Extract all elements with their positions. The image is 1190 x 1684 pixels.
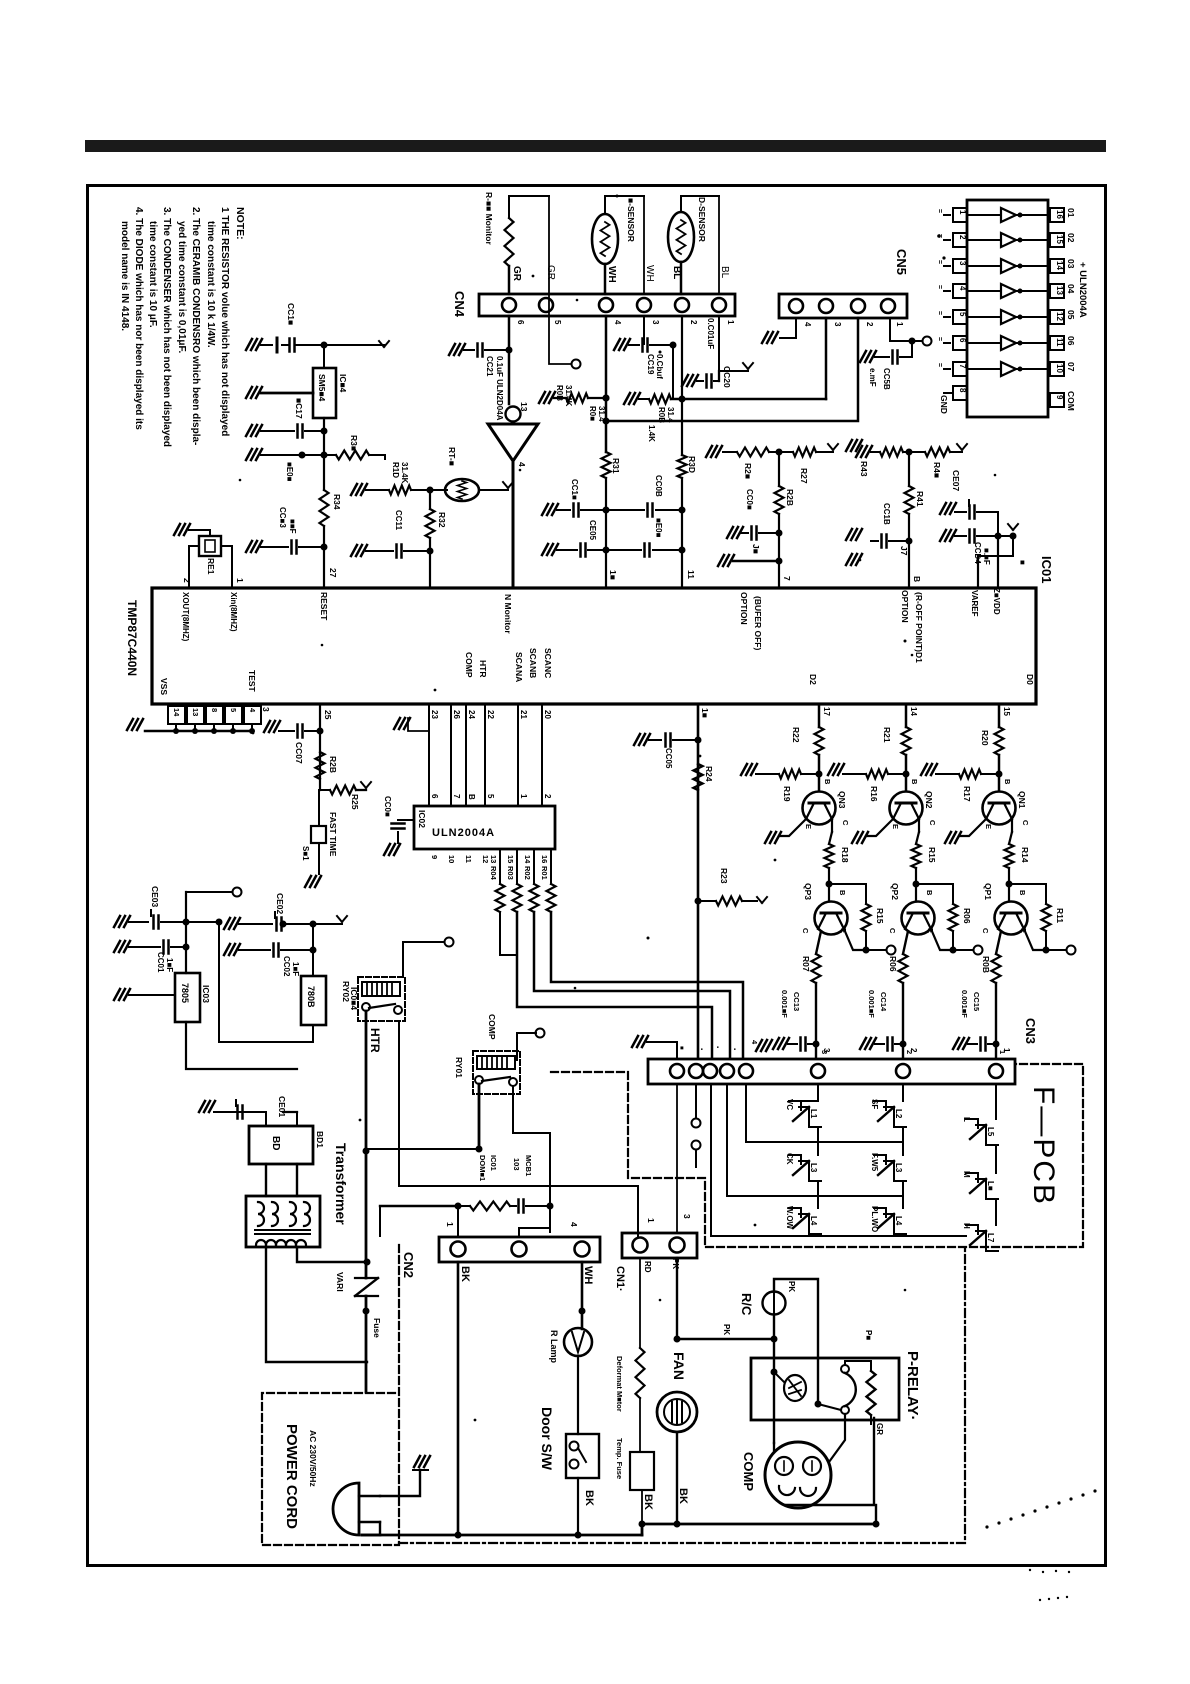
inverter bubble bbox=[506, 407, 521, 422]
compressor COMP bbox=[765, 1442, 831, 1508]
capacitor CC01 bbox=[129, 946, 160, 948]
resistor R42 bbox=[925, 448, 950, 457]
CN4 pin circle 3 bbox=[637, 298, 651, 312]
wire IC01 pin 21 to ULN bbox=[517, 704, 519, 806]
wire IC01 pin 20 to ULN bbox=[541, 704, 543, 806]
junction J6 bbox=[776, 530, 783, 537]
svg-text:E: E bbox=[804, 824, 813, 829]
svg-text:11: 11 bbox=[686, 570, 696, 579]
resistor R21 bbox=[902, 727, 911, 755]
snubber resistor bbox=[470, 1202, 510, 1211]
svg-text:E: E bbox=[984, 824, 993, 829]
ground plug bbox=[414, 1456, 430, 1467]
svg-text:CC1B: CC1B bbox=[882, 503, 891, 525]
ground CC05 bbox=[634, 734, 650, 745]
wire FPCB right col bbox=[995, 1145, 997, 1173]
IC01 bottom pin box 8 bbox=[206, 706, 223, 724]
capacitor CC08 bbox=[606, 509, 644, 511]
svg-text:P-RELAY·: P-RELAY· bbox=[904, 1351, 921, 1420]
wire R18 to QP3 base bbox=[828, 868, 830, 884]
wire R01 to CN3 pin bbox=[551, 912, 743, 1058]
svg-text:■-SENSOR: ■-SENSOR bbox=[626, 198, 636, 242]
wire fuse bbox=[365, 1296, 368, 1362]
capacitor CE04 bbox=[606, 549, 641, 551]
svg-text:06: 06 bbox=[1066, 336, 1076, 346]
svg-text:R43: R43 bbox=[859, 461, 869, 477]
svg-text:D-SENSOR: D-SENSOR bbox=[697, 197, 707, 242]
svg-text:B: B bbox=[838, 890, 847, 896]
ground CC01 bbox=[114, 941, 130, 952]
svg-text:Fuse: Fuse bbox=[372, 1318, 382, 1338]
svg-text:0.1uF ULN2D04A: 0.1uF ULN2D04A bbox=[495, 356, 504, 421]
resistor R27 bbox=[793, 448, 816, 457]
RY02 coil terminal bbox=[403, 942, 444, 977]
wire R21 to base bbox=[905, 755, 908, 774]
transistor QP1 bbox=[995, 902, 1028, 935]
svg-text:780B: 780B bbox=[306, 986, 316, 1008]
ground CC15 bbox=[953, 1038, 969, 1049]
svg-text:31.4K: 31.4K bbox=[564, 385, 573, 407]
resistor R32 bbox=[426, 509, 435, 538]
svg-text:COM: COM bbox=[1066, 391, 1076, 411]
svg-text:C: C bbox=[981, 928, 990, 934]
svg-text:02: 02 bbox=[1066, 233, 1076, 243]
capacitor CC06b bbox=[741, 532, 748, 534]
svg-text:RY01: RY01 bbox=[454, 1057, 464, 1078]
svg-text:Deformat M■tor: Deformat M■tor bbox=[615, 1356, 624, 1412]
capacitor CC21 bbox=[464, 349, 474, 351]
wire defrost mid bbox=[639, 1398, 641, 1452]
svg-text:CC20: CC20 bbox=[722, 366, 732, 388]
wire emitter join QP2 bbox=[931, 929, 953, 950]
wire bus up to coil bbox=[875, 1505, 877, 1524]
svg-text:COMP: COMP bbox=[487, 1014, 497, 1040]
svg-text:CC0■: CC0■ bbox=[383, 796, 392, 817]
wire CN2 pin1 to bus bbox=[457, 1262, 460, 1535]
rectifier BD1 body bbox=[249, 1126, 313, 1164]
svg-text:GR: GR bbox=[511, 266, 522, 282]
svg-text:R18: R18 bbox=[840, 847, 850, 863]
svg-text:PK: PK bbox=[787, 1281, 796, 1292]
svg-text:14: 14 bbox=[1055, 261, 1064, 270]
input pin box 2 bbox=[953, 233, 967, 247]
svg-text:TMP87C440N: TMP87C440N bbox=[125, 600, 139, 676]
svg-text:15: 15 bbox=[1055, 235, 1064, 244]
CN5 pin circle 2 bbox=[851, 299, 865, 313]
lamp R Lamp bbox=[564, 1328, 592, 1356]
svg-text:M: M bbox=[962, 1171, 971, 1178]
svg-text:L2: L2 bbox=[894, 1109, 903, 1119]
ground CN5 pin4 bbox=[762, 332, 778, 343]
resistor R02 bbox=[533, 849, 535, 884]
svg-text:QN2: QN2 bbox=[924, 791, 934, 809]
svg-text:04: 04 bbox=[1066, 284, 1076, 294]
svg-text:CN3: CN3 bbox=[1023, 1018, 1038, 1044]
fuse Temp Fuse body bbox=[630, 1452, 654, 1490]
ground CC17 bbox=[246, 425, 262, 436]
POWER CORD dashed box bbox=[262, 1245, 399, 1545]
wire R34 to IC01 bbox=[323, 547, 325, 587]
wire RY01 common down bbox=[478, 1084, 481, 1149]
svg-text:13: 13 bbox=[191, 708, 200, 716]
svg-text:L7: L7 bbox=[986, 1233, 995, 1243]
svg-text:+ ULN2004A: + ULN2004A bbox=[1077, 262, 1088, 318]
svg-text:HTR: HTR bbox=[368, 1028, 382, 1053]
svg-text:21: 21 bbox=[519, 710, 528, 719]
wire RY01 coil right bbox=[516, 1051, 518, 1060]
ground emitter QN2 bbox=[852, 832, 868, 843]
resistor R18 bbox=[831, 819, 833, 832]
svg-text:OPTION: OPTION bbox=[739, 592, 749, 625]
svg-text:CN1·: CN1· bbox=[614, 1266, 626, 1292]
wire VAREF bbox=[1012, 536, 1014, 556]
IC01 bottom pin box 13 bbox=[187, 706, 204, 724]
wire CN1 pin1 defrost bbox=[639, 1258, 641, 1348]
svg-text:BL: BL bbox=[671, 266, 682, 279]
wire RE1 right bbox=[221, 546, 232, 587]
wire IC01 pin 15 bbox=[998, 704, 1001, 727]
svg-text:12: 12 bbox=[481, 855, 490, 863]
output pin box 16 bbox=[1050, 362, 1064, 376]
transformer secondary winding bbox=[258, 1202, 264, 1226]
svg-text:7: 7 bbox=[782, 576, 792, 581]
ground CC21 bbox=[449, 344, 465, 355]
svg-text:PK: PK bbox=[722, 1324, 731, 1335]
wire pin box 14 bbox=[175, 724, 177, 731]
svg-text:R2■: R2■ bbox=[743, 463, 753, 479]
supply arrow pin1 net bbox=[743, 363, 748, 369]
svg-text:CN2: CN2 bbox=[401, 1252, 416, 1278]
ground R10 bbox=[351, 484, 367, 495]
svg-text:R24: R24 bbox=[704, 766, 714, 782]
CN5 pin circle 1 bbox=[881, 299, 895, 313]
wire emitter join QP1 bbox=[1024, 929, 1046, 950]
svg-text:4: 4 bbox=[613, 320, 622, 325]
open terminal CN5 bbox=[923, 337, 932, 346]
resistor R23 bbox=[698, 900, 716, 902]
CN3 pin circle 4 bbox=[720, 1064, 734, 1078]
svg-text:9: 9 bbox=[1055, 395, 1064, 400]
relay RY02 coil bbox=[362, 982, 400, 996]
svg-text:CK: CK bbox=[785, 1153, 794, 1165]
resistor R15 bbox=[829, 884, 866, 904]
wire R15 to QP2 base bbox=[915, 868, 917, 884]
resistor R09 31.4K bbox=[566, 394, 588, 403]
svg-text:B: B bbox=[912, 576, 922, 582]
svg-text:4: 4 bbox=[569, 1222, 579, 1227]
svg-text:CC■3: CC■3 bbox=[278, 507, 287, 528]
switch SW1 FAST TIME bbox=[311, 826, 326, 843]
buffer triangle 5 of ULN2004A bbox=[1001, 310, 1016, 324]
wire temp fuse to bus bbox=[641, 1490, 643, 1524]
capacitor CC11 bbox=[366, 550, 393, 552]
svg-text:BD1: BD1 bbox=[315, 1131, 325, 1148]
svg-text:103: 103 bbox=[512, 1158, 521, 1171]
svg-text:■C17: ■C17 bbox=[294, 398, 304, 419]
svg-text:OPTION: OPTION bbox=[900, 590, 910, 623]
svg-text:R25: R25 bbox=[350, 794, 360, 810]
svg-text:BK: BK bbox=[459, 1266, 471, 1282]
wire RC down to COMP bbox=[773, 1339, 775, 1443]
svg-text:QN3: QN3 bbox=[837, 791, 847, 809]
svg-text:24: 24 bbox=[467, 710, 476, 719]
switch Door S/W body bbox=[566, 1434, 599, 1478]
svg-text:07: 07 bbox=[1066, 362, 1076, 372]
svg-text:R31: R31 bbox=[611, 458, 621, 474]
F-PCB lamp VC L1 bbox=[789, 1101, 801, 1110]
resistor R31 bbox=[602, 452, 611, 478]
supply arrow R42 bbox=[957, 444, 962, 450]
svg-text:L: L bbox=[962, 1117, 971, 1122]
svg-text:6: 6 bbox=[430, 794, 439, 799]
input pin tick 7 bbox=[944, 368, 950, 370]
buffer triangle 7 of ULN2004A bbox=[1001, 362, 1016, 376]
svg-text:1.4K: 1.4K bbox=[647, 425, 656, 442]
transformer body bbox=[246, 1196, 320, 1247]
wire IC01 pin 26 to ULN bbox=[450, 704, 452, 806]
svg-text:W.OW: W.OW bbox=[785, 1206, 794, 1230]
svg-text:VC: VC bbox=[785, 1099, 794, 1110]
svg-text:B: B bbox=[823, 779, 832, 785]
junction CC11 bbox=[427, 548, 434, 555]
resistor R30 bbox=[678, 455, 687, 478]
svg-text:RT-■: RT-■ bbox=[447, 447, 457, 466]
svg-text:3: 3 bbox=[822, 1048, 831, 1053]
connector CN1 body bbox=[622, 1233, 697, 1258]
CN1 pin circle 1 bbox=[633, 1238, 648, 1253]
wire R26 rail bbox=[723, 451, 737, 453]
junction CC12 bbox=[321, 342, 328, 349]
svg-text:16: 16 bbox=[540, 855, 549, 863]
wire R14 to QP1 base bbox=[1008, 868, 1010, 884]
COM pin box bbox=[1050, 393, 1064, 407]
wire pin box 13 bbox=[194, 724, 196, 731]
junction R35 node bbox=[321, 452, 328, 459]
wire transformer primary right bbox=[297, 1247, 367, 1262]
open terminal COMP bbox=[536, 1029, 545, 1038]
F-PCB dashed boundary bbox=[551, 1064, 1083, 1247]
svg-text:6: 6 bbox=[958, 338, 967, 343]
svg-text:R27: R27 bbox=[799, 468, 809, 484]
svg-text:R14: R14 bbox=[1020, 847, 1030, 863]
ground R17 bbox=[921, 764, 937, 775]
capacitor CC17 bbox=[261, 430, 294, 432]
CN4 pin circle 4 bbox=[599, 298, 613, 312]
wire comp bottom bbox=[786, 1418, 874, 1505]
resistor R06 bbox=[916, 884, 953, 904]
input pin tick 2 bbox=[944, 239, 950, 241]
svg-text:N Monitor: N Monitor bbox=[503, 594, 513, 634]
input pin box 4 bbox=[953, 284, 967, 298]
svg-text:MCB1: MCB1 bbox=[524, 1155, 533, 1176]
svg-text:L4: L4 bbox=[894, 1216, 903, 1226]
transistor QN2 bbox=[890, 792, 923, 825]
transformer primary winding bbox=[256, 1240, 266, 1245]
svg-text:4. The DIODE which has nor be: 4. The DIODE which has nor been displaye… bbox=[133, 207, 144, 430]
wire CC12 to SM5K4 bbox=[323, 345, 325, 368]
wire CN1 pin3 up bbox=[676, 1084, 678, 1233]
svg-text:HTR: HTR bbox=[478, 660, 488, 677]
CN3 pin circle 5 bbox=[739, 1064, 753, 1078]
svg-text:16: 16 bbox=[1055, 210, 1064, 219]
svg-text:B: B bbox=[925, 890, 934, 896]
F-PCB lamp SF L2 bbox=[874, 1101, 886, 1110]
output pin box 16 bbox=[1050, 259, 1064, 273]
ground CC02 bbox=[224, 944, 240, 955]
wire 7808 out bbox=[312, 1025, 314, 1042]
svg-text:QN1: QN1 bbox=[1017, 791, 1027, 809]
capacitor CC18 bbox=[871, 540, 878, 542]
input pin box 3 bbox=[953, 259, 967, 273]
svg-text:WH: WH bbox=[582, 1266, 594, 1284]
ground SW1 bbox=[305, 876, 321, 887]
resistor R35 bbox=[324, 454, 336, 456]
svg-text:CC02: CC02 bbox=[282, 956, 291, 977]
capacitor CC12 bbox=[288, 339, 291, 352]
svg-text:1: 1 bbox=[895, 322, 904, 327]
svg-text:14: 14 bbox=[172, 708, 181, 717]
capacitor CC09 bbox=[875, 356, 889, 358]
svg-text:R17: R17 bbox=[962, 786, 972, 802]
svg-text:SF: SF bbox=[870, 1099, 879, 1109]
junction CC21 bbox=[506, 347, 513, 354]
svg-text:R41: R41 bbox=[915, 491, 925, 507]
svg-text:25: 25 bbox=[323, 710, 333, 720]
svg-text:R22: R22 bbox=[791, 727, 801, 743]
junction CC04 bbox=[995, 533, 1002, 540]
buffer triangle 3 of ULN2004A bbox=[1001, 259, 1016, 273]
svg-text:L4: L4 bbox=[809, 1216, 818, 1226]
ground CE01 bbox=[199, 1101, 215, 1112]
wire RY02 to transformer line bbox=[365, 1011, 368, 1149]
svg-text:R34: R34 bbox=[332, 494, 342, 510]
wire CN5 pin3 down-left bbox=[825, 318, 828, 399]
F-PCB lamp FW5 L3 bbox=[874, 1155, 886, 1164]
CN1 pin circle 2 bbox=[670, 1238, 685, 1253]
wire FPCB col1 bbox=[817, 1127, 819, 1155]
svg-text:COMP: COMP bbox=[464, 652, 474, 678]
input pin tick 1 bbox=[944, 214, 950, 216]
svg-text:IC02: IC02 bbox=[417, 810, 427, 828]
CN5 pin circle 4 bbox=[789, 299, 803, 313]
svg-text:F—PCB: F—PCB bbox=[1027, 1086, 1060, 1206]
svg-text:C: C bbox=[1021, 820, 1030, 826]
Door S/W contacts bbox=[570, 1442, 579, 1451]
wire pin1 down bbox=[719, 316, 748, 371]
svg-text:=: = bbox=[936, 363, 943, 367]
wire pin box 5 bbox=[232, 724, 234, 731]
svg-text:yed time constant is 0,01μF.: yed time constant is 0,01μF. bbox=[176, 221, 187, 353]
wire CN5 pin1 node bbox=[890, 318, 912, 341]
svg-text:0.001■F: 0.001■F bbox=[780, 990, 789, 1018]
wire 5V rail right bbox=[219, 922, 313, 1042]
resistor R16 bbox=[843, 773, 866, 775]
wire pin6 down bbox=[508, 316, 511, 404]
wire R22 to base bbox=[818, 755, 821, 774]
svg-text:R06: R06 bbox=[962, 908, 972, 924]
ground CC10 bbox=[542, 504, 558, 515]
F-PCB lamp L L5 bbox=[966, 1119, 978, 1128]
svg-text:R23: R23 bbox=[719, 868, 729, 884]
relay RY01 contact bbox=[475, 1076, 483, 1084]
capacitor CE05 bbox=[557, 549, 577, 551]
label pin23 gnd stub bbox=[408, 718, 429, 731]
wire FPCB row1 bus bbox=[746, 1141, 903, 1143]
ground CC06b bbox=[727, 527, 743, 538]
svg-text:WH: WH bbox=[644, 265, 655, 282]
wire FPCB row3 bus bbox=[711, 1235, 966, 1237]
ground CC04 bbox=[940, 530, 956, 541]
wire relay to comp left bbox=[773, 1443, 775, 1452]
capacitor CC06 bbox=[398, 819, 414, 821]
connector CN5 body bbox=[779, 294, 907, 318]
wire RC bottom bbox=[773, 1314, 775, 1339]
wire CE01 bbox=[214, 1112, 266, 1126]
svg-text:4: 4 bbox=[750, 1040, 759, 1045]
resistor R03 bbox=[516, 849, 518, 884]
svg-text:CC21: CC21 bbox=[485, 356, 494, 377]
svg-text:10: 10 bbox=[1055, 364, 1064, 373]
svg-text:GR: GR bbox=[545, 265, 556, 280]
ground CE05 bbox=[542, 544, 558, 555]
wire bus step bbox=[641, 1524, 644, 1535]
connector CN3 body bbox=[648, 1059, 1015, 1084]
wire D-sensor top loop bbox=[680, 196, 682, 212]
snubber capacitor bbox=[517, 1200, 520, 1213]
buffer triangle 2 of ULN2004A bbox=[1001, 233, 1016, 247]
svg-text:R2B: R2B bbox=[328, 756, 338, 773]
wire snubber to CN2 pin1 bbox=[457, 1206, 459, 1237]
svg-text:WH: WH bbox=[606, 266, 617, 283]
open terminal 5V bbox=[233, 888, 242, 897]
capacitor CC10 bbox=[557, 509, 570, 511]
ground CC07 bbox=[264, 721, 280, 732]
IC01 bottom pin box 14 bbox=[168, 706, 185, 724]
junction CE02 bbox=[280, 921, 287, 928]
svg-text:RE1: RE1 bbox=[206, 558, 216, 575]
wire CN3 pin2 left col bbox=[695, 1084, 697, 1118]
svg-text:▪: ▪ bbox=[731, 1048, 737, 1050]
GND pin box bbox=[953, 386, 967, 400]
ground SM5K4 in bbox=[246, 387, 262, 398]
scan artifact dots 2 bbox=[1039, 1599, 1041, 1601]
P-RELAY contact bbox=[841, 1365, 849, 1373]
FPCB open circle a bbox=[692, 1119, 701, 1128]
svg-text:C: C bbox=[801, 928, 810, 934]
ground CC14 bbox=[860, 1038, 876, 1049]
output pin box 16 bbox=[1050, 284, 1064, 298]
svg-text:R04: R04 bbox=[489, 866, 498, 881]
CN3 pin circle 1 bbox=[670, 1064, 684, 1078]
svg-text:GR: GR bbox=[875, 1423, 884, 1435]
svg-text:0.Cbuf: 0.Cbuf bbox=[655, 354, 664, 379]
relay P-RELAY body bbox=[751, 1358, 899, 1420]
supply arrow RT-S bbox=[503, 482, 508, 488]
resistor R10 bbox=[366, 489, 389, 491]
svg-text:RD: RD bbox=[643, 1261, 652, 1273]
svg-text:SM5■4: SM5■4 bbox=[317, 374, 327, 402]
svg-text:CC0B: CC0B bbox=[654, 475, 663, 497]
capacitor CC15 bbox=[968, 1043, 977, 1045]
junction R23 bbox=[695, 898, 702, 905]
svg-text:7: 7 bbox=[452, 794, 461, 799]
wire collector down QP2 bbox=[903, 931, 908, 954]
svg-text:POWER CORD: POWER CORD bbox=[283, 1424, 300, 1529]
svg-text:1: 1 bbox=[1002, 1048, 1011, 1053]
svg-text:1■F: 1■F bbox=[291, 962, 300, 976]
svg-text:10: 10 bbox=[447, 855, 456, 863]
svg-text:23: 23 bbox=[430, 710, 439, 719]
